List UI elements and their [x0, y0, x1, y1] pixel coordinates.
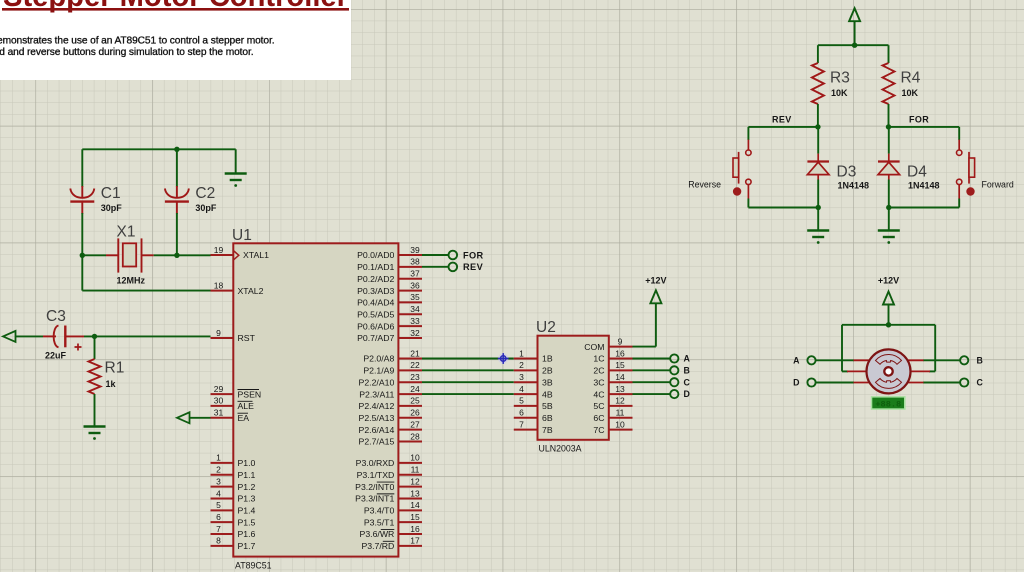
svg-text:10K: 10K — [831, 88, 848, 98]
node: top rail junction — [852, 43, 857, 48]
wire: down to ground — [235, 149, 237, 172]
svg-text:9: 9 — [618, 336, 623, 346]
terminal D — [670, 390, 678, 398]
svg-text:5B: 5B — [542, 401, 553, 411]
svg-text:ULN2003A: ULN2003A — [539, 444, 582, 454]
ground (D3) — [807, 231, 829, 238]
svg-text:P1.6: P1.6 — [238, 529, 256, 539]
wire: rail to R3 — [817, 45, 819, 63]
stepper motor body — [867, 349, 911, 393]
svg-text:P2.3/A11: P2.3/A11 — [359, 389, 394, 399]
svg-text:34: 34 — [410, 304, 420, 314]
svg-text:P0.3/AD3: P0.3/AD3 — [357, 286, 394, 296]
microcontroller U1 AT89C51 — [211, 243, 423, 556]
svg-text:P1.5: P1.5 — [238, 517, 256, 527]
svg-text:C1: C1 — [101, 185, 121, 202]
svg-text:35: 35 — [410, 292, 420, 302]
svg-text:9: 9 — [216, 328, 221, 338]
svg-text:26: 26 — [410, 408, 420, 418]
driver U2 ULN2003A — [514, 336, 633, 440]
svg-text:B: B — [684, 365, 690, 375]
diode D4 1N4148 — [878, 127, 900, 208]
ground (D4) — [878, 231, 900, 238]
wire: R1 to ground — [94, 394, 96, 426]
terminal FOR — [449, 251, 458, 260]
svg-text:16: 16 — [615, 348, 625, 358]
capacitor C2 — [165, 186, 189, 214]
svg-text:10: 10 — [615, 419, 625, 429]
svg-text:REV: REV — [463, 262, 484, 272]
svg-text:XTAL2: XTAL2 — [238, 286, 264, 296]
terminal A — [807, 356, 815, 364]
ground (crystal) — [225, 174, 247, 181]
node: RST junction — [92, 334, 97, 339]
svg-text:Reverse: Reverse — [688, 180, 721, 190]
wire: bottom rail right — [889, 207, 959, 209]
push button Forward — [957, 140, 975, 199]
wire: U2 3C to terminal C — [633, 381, 671, 383]
wire: C1 top lead — [81, 149, 83, 187]
svg-text:P2.5/A13: P2.5/A13 — [359, 413, 395, 423]
terminal D — [807, 378, 815, 386]
svg-text:28: 28 — [410, 431, 420, 441]
svg-text:33: 33 — [410, 316, 420, 326]
svg-text:23: 23 — [410, 372, 420, 382]
svg-text:XTAL1: XTAL1 — [243, 250, 269, 260]
svg-text:32: 32 — [410, 328, 420, 338]
svg-text:14: 14 — [615, 372, 625, 382]
svg-text:16: 16 — [410, 524, 420, 534]
node: REV junction — [815, 124, 820, 129]
svg-text:P1.4: P1.4 — [238, 506, 256, 516]
svg-text:FOR: FOR — [463, 250, 484, 260]
node: crystal right junction — [174, 253, 179, 258]
svg-text:A: A — [793, 355, 800, 365]
svg-text:8: 8 — [216, 536, 221, 546]
svg-text:2: 2 — [216, 465, 221, 475]
svg-text:30pF: 30pF — [195, 203, 217, 213]
marker: blue origin crosshair — [498, 353, 509, 364]
svg-text:4: 4 — [519, 384, 524, 394]
motor angle display — [871, 396, 906, 410]
svg-text:P3.5/T1: P3.5/T1 — [364, 517, 395, 527]
svg-text:REV: REV — [772, 115, 792, 125]
wire: P2.2 to U2 pin 3 — [422, 381, 514, 383]
svg-text:15: 15 — [615, 360, 625, 370]
svg-text:1B: 1B — [542, 354, 553, 364]
svg-text:22: 22 — [410, 360, 420, 370]
svg-text:7B: 7B — [542, 425, 553, 435]
wire: P2.1 to U2 pin 2 — [422, 369, 514, 371]
node: FOR junction — [886, 124, 891, 129]
svg-text:D: D — [793, 378, 799, 388]
svg-text:COM: COM — [584, 342, 604, 352]
svg-text:3: 3 — [519, 372, 524, 382]
svg-text:P3.3/INT1: P3.3/INT1 — [355, 494, 394, 504]
wire: D to motor — [816, 382, 854, 384]
diode D3 1N4148 — [807, 127, 829, 208]
wire: left column down to XTAL2 row — [81, 255, 83, 290]
svg-text:U1: U1 — [232, 227, 252, 244]
svg-text:1N4148: 1N4148 — [838, 181, 870, 191]
svg-text:1k: 1k — [106, 379, 117, 389]
wire: crystal to XTAL1 pin — [154, 254, 211, 256]
svg-text:7: 7 — [216, 524, 221, 534]
wire: rail to R4 — [888, 45, 890, 63]
wire: XTAL2 row — [82, 290, 210, 292]
svg-text:12: 12 — [410, 476, 420, 486]
svg-text:FOR: FOR — [909, 115, 929, 125]
svg-text:AT89C51: AT89C51 — [235, 561, 272, 571]
svg-text:P2.4/A12: P2.4/A12 — [359, 401, 395, 411]
svg-text:17: 17 — [410, 536, 420, 546]
svg-text:C3: C3 — [46, 308, 66, 325]
svg-text:12: 12 — [615, 396, 625, 406]
svg-text:4: 4 — [216, 488, 221, 498]
ground (R1) — [84, 427, 106, 434]
wire: REV net — [748, 126, 818, 128]
svg-text:1: 1 — [519, 348, 524, 358]
svg-text:19: 19 — [214, 245, 224, 255]
svg-text:ALE: ALE — [238, 401, 255, 411]
node: D3 bottom junction — [816, 205, 821, 210]
svg-text:P3.4/T0: P3.4/T0 — [364, 506, 395, 516]
svg-text:EA: EA — [238, 413, 250, 423]
wire: bracket right to motor — [929, 370, 935, 372]
svg-text:D: D — [684, 389, 690, 399]
svg-text:7: 7 — [519, 419, 524, 429]
power +12V (U2) — [650, 290, 661, 303]
svg-text:11: 11 — [411, 465, 420, 475]
svg-text:22uF: 22uF — [45, 351, 67, 361]
svg-text:2B: 2B — [542, 366, 553, 376]
wire: COM to +12V — [633, 346, 656, 348]
wire: EA to terminal — [190, 417, 211, 419]
svg-text:P3.0/RXD: P3.0/RXD — [356, 458, 395, 468]
svg-text:C: C — [684, 377, 691, 387]
svg-text:+12V: +12V — [878, 276, 899, 286]
svg-text:27: 27 — [410, 419, 420, 429]
svg-text:1: 1 — [216, 453, 221, 463]
svg-text:C: C — [977, 378, 984, 388]
svg-text:P0.1/AD1: P0.1/AD1 — [357, 262, 394, 272]
svg-text:P2.6/A14: P2.6/A14 — [359, 425, 395, 435]
svg-text:31: 31 — [214, 408, 224, 418]
svg-text:30: 30 — [214, 396, 224, 406]
svg-text:6: 6 — [216, 512, 221, 522]
wire: P0.1 to REV terminal — [422, 266, 448, 268]
svg-text:36: 36 — [410, 280, 420, 290]
svg-text:+88.8: +88.8 — [875, 399, 901, 409]
svg-text:RST: RST — [238, 333, 256, 343]
svg-text:12MHz: 12MHz — [117, 276, 146, 286]
terminal (input, left of C3) — [3, 331, 16, 342]
svg-text:6: 6 — [519, 408, 524, 418]
capacitor C1 — [70, 186, 94, 214]
svg-text:3C: 3C — [593, 377, 604, 387]
svg-text:6B: 6B — [542, 413, 553, 423]
node: bracket junction — [886, 322, 891, 327]
title box — [0, 0, 351, 80]
wire: bracket right vertical — [934, 325, 936, 372]
svg-text:rd and reverse buttons during: rd and reverse buttons during simulation… — [0, 47, 253, 58]
wire: C3 to RST — [84, 335, 211, 337]
svg-text:P0.4/AD4: P0.4/AD4 — [357, 298, 394, 308]
wire: FOR net — [889, 126, 960, 128]
svg-text:1C: 1C — [593, 354, 604, 364]
svg-text:P3.2/INT0: P3.2/INT0 — [355, 482, 394, 492]
power +12V (motor) — [883, 292, 894, 325]
terminal C — [960, 378, 968, 386]
wire: C1 top to ground rail — [82, 148, 235, 150]
crystal X1 — [82, 238, 153, 272]
svg-text:Forward: Forward — [982, 180, 1014, 190]
wire: junction down to R1 — [94, 336, 96, 359]
svg-text:PSEN: PSEN — [238, 389, 262, 399]
wire: bracket left to motor — [842, 370, 848, 372]
svg-text:A: A — [684, 354, 691, 364]
wire: C2 top lead — [176, 149, 178, 187]
wire: C2 bottom to XTAL1 row — [176, 213, 178, 255]
svg-text:R3: R3 — [830, 70, 850, 87]
svg-text:R4: R4 — [901, 70, 921, 87]
svg-text:B: B — [977, 355, 983, 365]
wire: D4 junction to ground — [888, 208, 890, 230]
capacitor C3 (polarized) — [43, 326, 84, 351]
wire: bracket left vertical — [841, 325, 843, 372]
title underline — [2, 8, 349, 11]
svg-text:P2.1/A9: P2.1/A9 — [363, 366, 394, 376]
svg-text:39: 39 — [410, 245, 420, 255]
resistor R4 — [883, 63, 895, 104]
svg-text:3: 3 — [216, 476, 221, 486]
node: C2 top junction — [174, 147, 179, 152]
wire: D3 junction to ground — [817, 208, 819, 230]
wire: motor to B — [923, 359, 960, 361]
svg-text:D4: D4 — [907, 164, 927, 181]
svg-text:P1.7: P1.7 — [238, 541, 256, 551]
svg-text:4C: 4C — [593, 389, 604, 399]
svg-text:38: 38 — [410, 257, 420, 267]
svg-text:P1.2: P1.2 — [238, 482, 256, 492]
terminal B — [670, 366, 678, 374]
wire: terminal to C3 — [16, 335, 43, 337]
svg-text:1N4148: 1N4148 — [908, 181, 940, 191]
svg-text:P0.5/AD5: P0.5/AD5 — [357, 309, 394, 319]
wire: A to motor — [816, 359, 854, 361]
svg-text:14: 14 — [410, 500, 420, 510]
motor lead stubs — [847, 360, 930, 382]
svg-text:C2: C2 — [195, 185, 215, 202]
wire: bottom rail left — [748, 207, 818, 209]
svg-text:X1: X1 — [117, 224, 136, 241]
svg-text:P0.7/AD7: P0.7/AD7 — [357, 333, 394, 343]
wire: motor common bracket top — [842, 324, 935, 326]
svg-text:P3.1/TXD: P3.1/TXD — [357, 470, 395, 480]
wire: FOR to button — [958, 127, 960, 140]
svg-text:P1.1: P1.1 — [238, 470, 256, 480]
terminal C — [670, 378, 678, 386]
wire: button Reverse to bottom rail — [747, 199, 749, 208]
push button Reverse — [733, 140, 751, 199]
wire: P2.0 to U2 pin 1 — [422, 358, 514, 360]
U2 pin names and numbers — [519, 336, 625, 434]
svg-text:P0.2/AD2: P0.2/AD2 — [357, 274, 394, 284]
terminal B — [960, 356, 968, 364]
svg-text:18: 18 — [214, 280, 224, 290]
svg-text:Stepper Motor Controller: Stepper Motor Controller — [3, 0, 348, 13]
svg-text:5C: 5C — [593, 401, 604, 411]
svg-text:6C: 6C — [593, 413, 604, 423]
svg-text:10K: 10K — [902, 88, 919, 98]
terminal REV — [449, 263, 458, 272]
svg-text:25: 25 — [410, 396, 420, 406]
svg-text:30pF: 30pF — [101, 203, 123, 213]
resistor R1 — [89, 359, 101, 394]
svg-text:P2.2/A10: P2.2/A10 — [359, 377, 395, 387]
svg-text:2C: 2C — [593, 366, 604, 376]
svg-text:emonstrates the use of an AT89: emonstrates the use of an AT89C51 to con… — [0, 36, 274, 47]
svg-text:24: 24 — [410, 384, 420, 394]
node: D4 bottom junction — [886, 205, 891, 210]
terminal (EA) — [177, 412, 190, 423]
wire: REV to button — [747, 127, 749, 140]
svg-text:10: 10 — [410, 453, 420, 463]
svg-text:P1.3: P1.3 — [238, 494, 256, 504]
svg-text:P3.7/RD: P3.7/RD — [361, 541, 394, 551]
svg-text:13: 13 — [615, 384, 625, 394]
svg-text:P3.6/WR: P3.6/WR — [360, 529, 395, 539]
wire: top rail — [818, 44, 889, 46]
svg-text:P1.0: P1.0 — [238, 458, 256, 468]
svg-text:2: 2 — [519, 360, 524, 370]
svg-text:D3: D3 — [837, 164, 857, 181]
wire: P2.3 to U2 pin 4 — [422, 393, 514, 395]
svg-text:37: 37 — [410, 269, 420, 279]
svg-text:5: 5 — [216, 500, 221, 510]
power +5V rail (top) — [849, 8, 860, 45]
wire: P0.0 to FOR terminal — [422, 254, 448, 256]
wire: button Forward to bottom rail — [958, 199, 960, 208]
wire: U2 1C to terminal A — [633, 358, 671, 360]
svg-text:21: 21 — [410, 348, 420, 358]
svg-text:5: 5 — [519, 396, 524, 406]
svg-text:7C: 7C — [593, 425, 604, 435]
wire: up to +12V arrow — [655, 304, 657, 347]
svg-text:3B: 3B — [542, 377, 553, 387]
svg-text:13: 13 — [410, 488, 420, 498]
svg-text:P0.6/AD6: P0.6/AD6 — [357, 321, 394, 331]
node: crystal left junction — [80, 253, 85, 258]
terminal A — [670, 354, 678, 362]
svg-text:R1: R1 — [105, 360, 125, 377]
wire: R3 to REV node — [817, 104, 819, 127]
svg-text:4B: 4B — [542, 389, 553, 399]
wire: R4 to FOR node — [888, 104, 890, 127]
svg-text:29: 29 — [214, 384, 224, 394]
svg-text:+12V: +12V — [645, 276, 666, 286]
svg-text:U2: U2 — [536, 319, 556, 336]
svg-text:11: 11 — [616, 408, 625, 418]
resistor R3 — [812, 63, 824, 104]
U1 pin names and numbers — [214, 245, 420, 551]
wire: motor to C — [923, 382, 960, 384]
wire: C1 bottom to XTAL1 row — [81, 213, 83, 255]
svg-text:P2.0/A8: P2.0/A8 — [363, 354, 394, 364]
wire: U2 2C to terminal B — [633, 369, 671, 371]
svg-text:P2.7/A15: P2.7/A15 — [359, 437, 395, 447]
svg-text:P0.0/AD0: P0.0/AD0 — [357, 250, 394, 260]
wire: U2 4C to terminal D — [633, 393, 671, 395]
svg-text:15: 15 — [410, 512, 420, 522]
